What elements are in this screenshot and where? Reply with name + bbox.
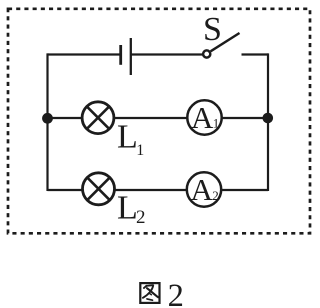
wire: right rail: [267, 53, 269, 191]
wire: top left segment: [48, 53, 121, 55]
svg-text:2: 2: [136, 207, 146, 228]
svg-text:1: 1: [136, 142, 144, 159]
svg-text:L: L: [117, 190, 138, 227]
lamp L1: [82, 102, 114, 134]
label L1: [117, 119, 144, 159]
wire: bottom branch: [48, 189, 269, 191]
svg-text:L: L: [117, 119, 138, 156]
wire: battery to switch: [132, 53, 204, 55]
svg-text:2: 2: [168, 278, 184, 308]
node: right junction: [263, 113, 274, 124]
wire: switch to right rail: [242, 53, 269, 55]
switch S: [203, 33, 239, 58]
ammeter A2: [187, 172, 221, 207]
svg-text:1: 1: [213, 115, 220, 130]
lamp L2: [83, 173, 115, 205]
svg-text:A: A: [191, 100, 214, 135]
svg-text:S: S: [203, 11, 222, 48]
caption: character 图: [140, 283, 159, 303]
svg-text:2: 2: [212, 188, 219, 203]
battery cell: [121, 38, 131, 75]
ammeter A1: [187, 100, 221, 135]
label L2: [117, 190, 146, 229]
wire: middle branch: [48, 117, 269, 119]
svg-text:A: A: [191, 172, 214, 207]
node: left junction: [42, 113, 53, 124]
wire: left rail: [46, 53, 48, 191]
